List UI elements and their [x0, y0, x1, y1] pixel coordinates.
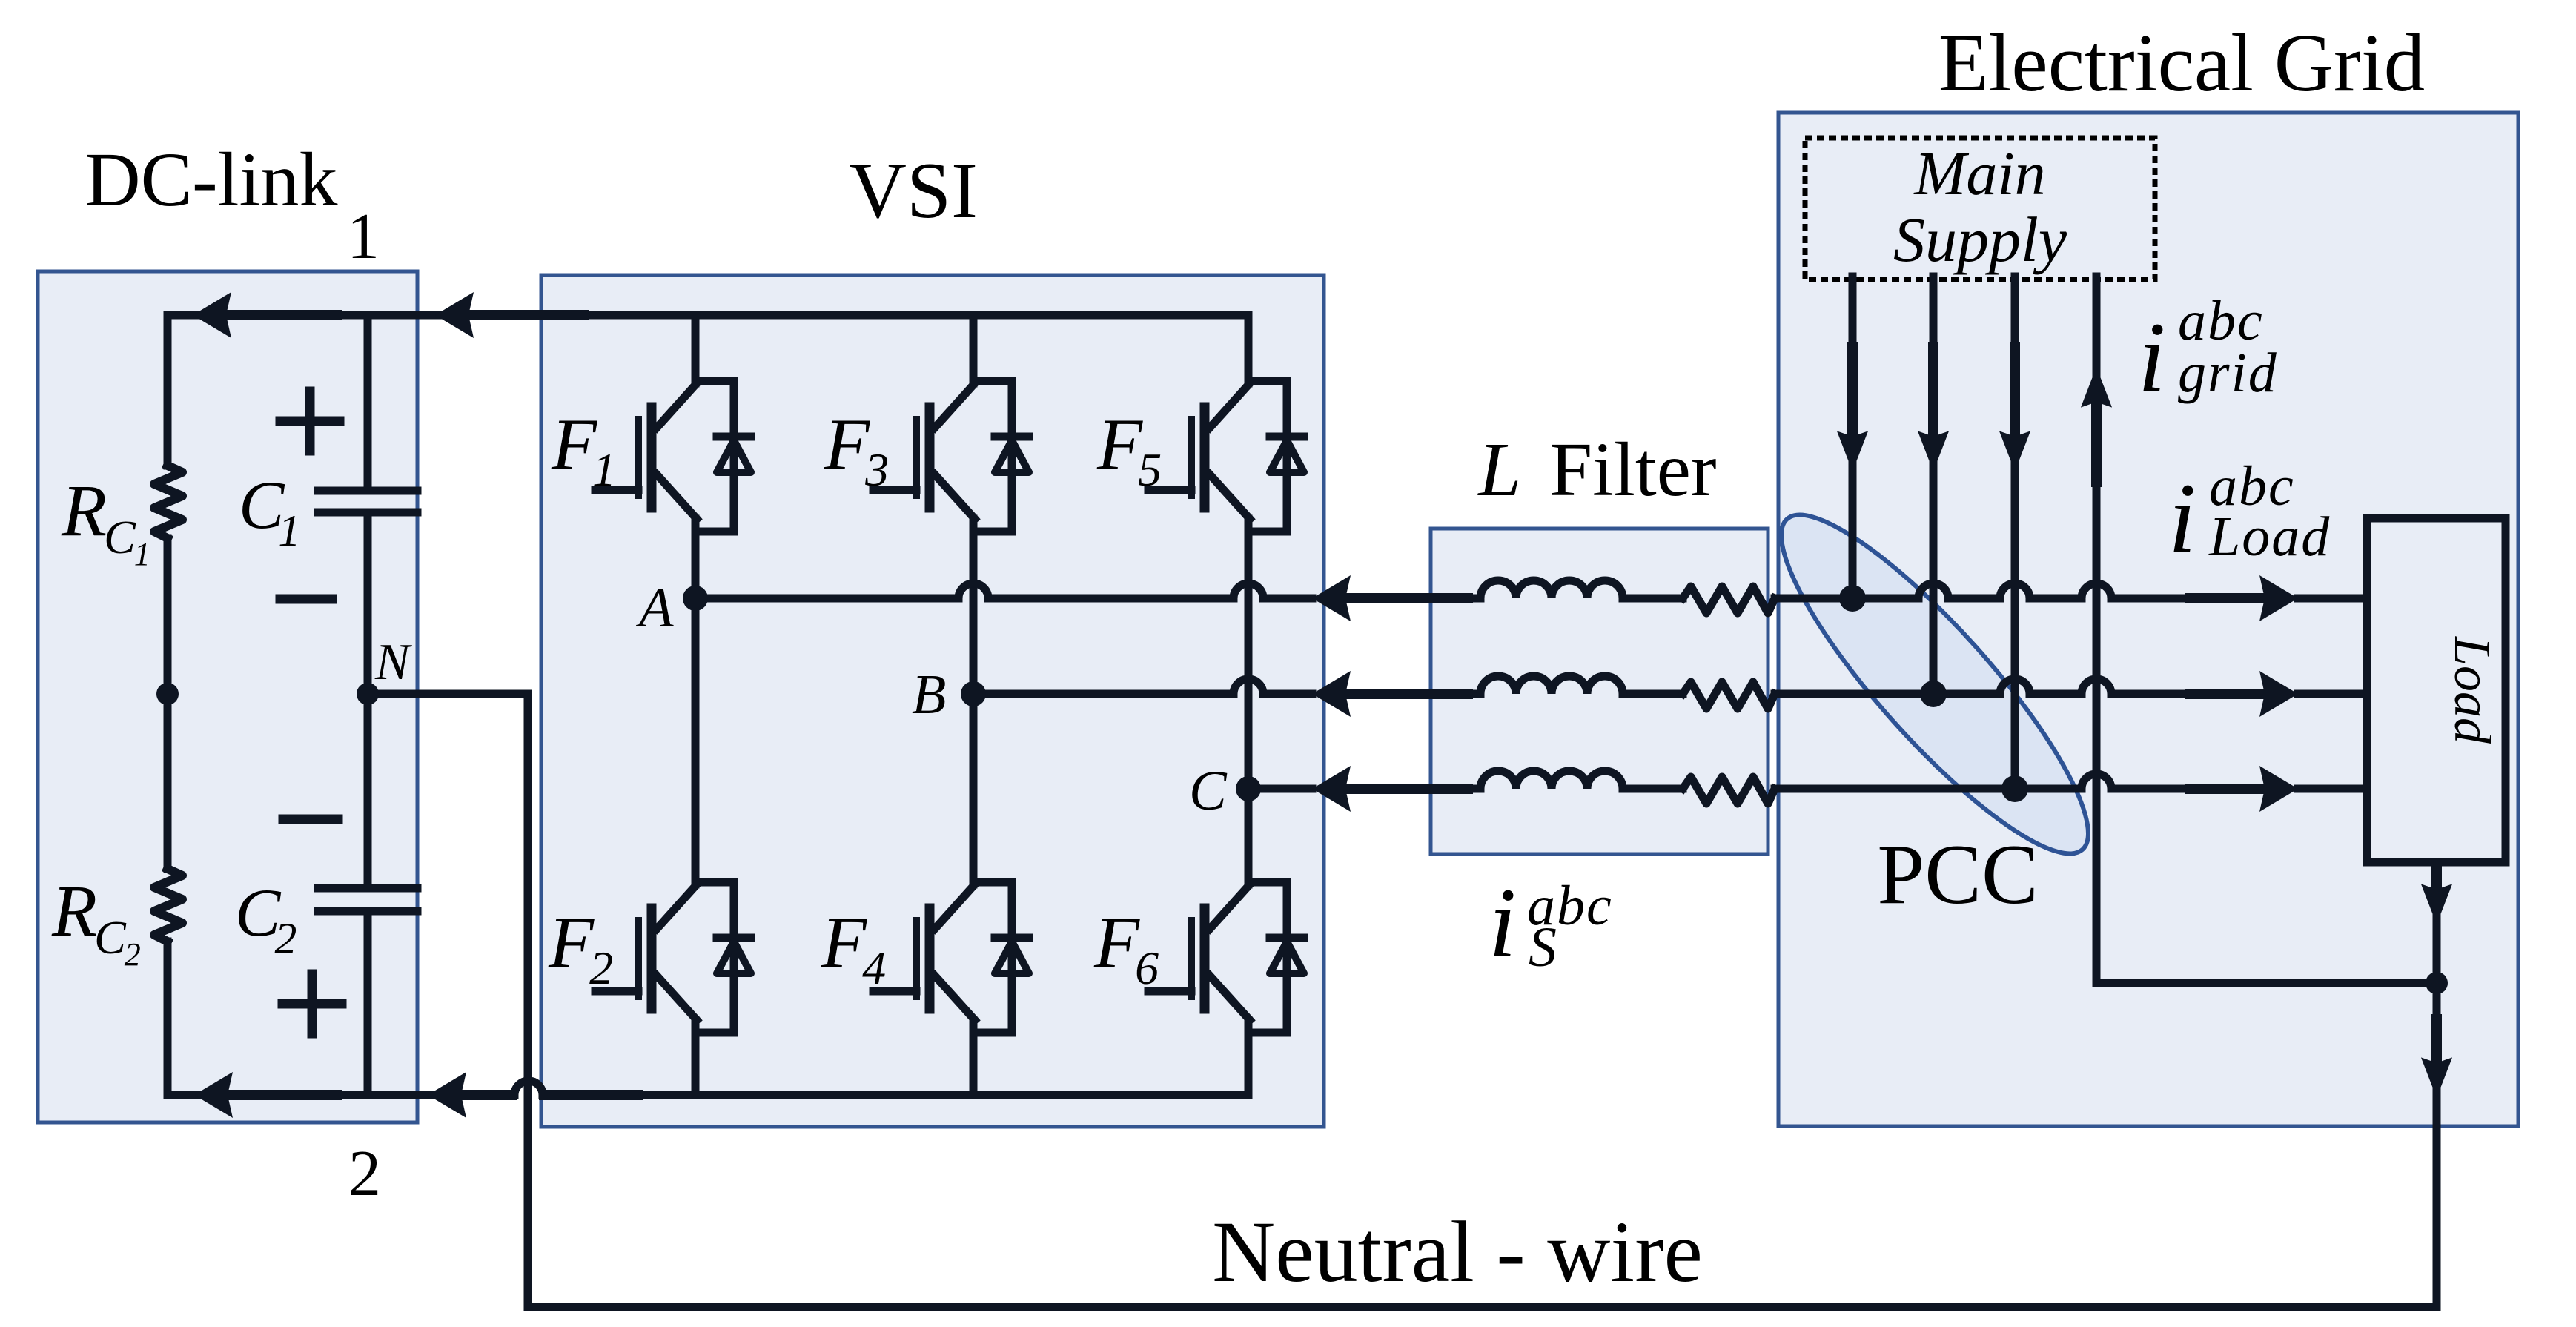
- inductor La: [1480, 580, 1623, 598]
- svg-text:LFilter: LFilter: [1477, 427, 1716, 512]
- PCC dot phase A: [1839, 585, 1866, 612]
- IGBT F2 with antiparallel diode: [595, 882, 751, 1033]
- svg-text:i: i: [1489, 868, 1517, 979]
- phase B wire from node B through filter to Load: [973, 679, 2367, 694]
- svg-text:i: i: [2168, 463, 2196, 574]
- resistor Rc: [1683, 777, 1775, 804]
- wire: neutral from node N down and along bottom to load drop: [368, 694, 2437, 1307]
- minus sign lower: [283, 815, 338, 824]
- node N dot left: [156, 683, 179, 705]
- resistor Rb: [1683, 682, 1775, 709]
- arrow phase C into Load: [2259, 766, 2298, 812]
- arrow grid line 1 down: [1837, 431, 1868, 471]
- svg-text:grid: grid: [2178, 342, 2278, 404]
- capacitor C1 plates: [318, 491, 417, 512]
- minus sign upper: [280, 595, 332, 604]
- Electrical Grid block box: [1778, 113, 2518, 1126]
- arrow grid line 3 down: [1999, 431, 2030, 471]
- svg-text:2: 2: [348, 1138, 381, 1210]
- node B dot: [961, 681, 986, 706]
- svg-text:i: i: [2138, 302, 2166, 413]
- resistor RC1: [154, 466, 182, 538]
- grid vertical wire 2 from Main Supply to phase B: [1930, 277, 1938, 694]
- svg-text:B: B: [912, 663, 946, 726]
- node N dot: [357, 683, 379, 705]
- grid vertical wire 4 (i grid) down and right to load drop: [2096, 277, 2437, 983]
- capacitor C2 plates: [318, 888, 417, 911]
- node C dot: [1236, 776, 1261, 801]
- PCC dot phase C: [2001, 775, 2028, 802]
- plus sign upper: [280, 391, 340, 451]
- VSI leg B vertical wires: [970, 315, 978, 1095]
- arrow phase A into Load: [2259, 575, 2298, 621]
- DC top rail wire: [168, 311, 1248, 320]
- phase A wire from node A through filter to Load: [695, 583, 2367, 598]
- IGBT F4 with antiparallel diode: [873, 882, 1029, 1033]
- arrow on bottom rail from VSI: [428, 1072, 466, 1118]
- PCC dot phase B: [1920, 681, 1947, 707]
- svg-text:Main: Main: [1913, 139, 2045, 208]
- plus sign lower: [282, 974, 342, 1033]
- arrow tails: [217, 310, 337, 320]
- VSI block box: [541, 275, 1324, 1127]
- svg-text:Load: Load: [2208, 506, 2331, 568]
- DC-link capacitor branch vertical wire: [364, 315, 372, 1095]
- svg-text:S: S: [1529, 916, 1557, 979]
- Main Supply dashed box: [1805, 138, 2155, 279]
- VSI leg C vertical wires: [1245, 315, 1253, 1095]
- svg-text:C: C: [1189, 760, 1228, 822]
- grid vertical wire 1 from Main Supply to phase A: [1849, 277, 1857, 598]
- arrow phase A into VSI: [1312, 575, 1351, 621]
- arrow to neutral down: [2421, 1057, 2452, 1098]
- svg-text:VSI: VSI: [849, 147, 978, 235]
- svg-text:Neutral - wire: Neutral - wire: [1212, 1203, 1703, 1300]
- svg-text:N: N: [374, 634, 412, 691]
- arrow i grid up: [2081, 367, 2112, 408]
- node A dot: [683, 586, 708, 611]
- IGBT F5 with antiparallel diode: [1148, 381, 1304, 532]
- junction dot load drop: [2426, 972, 2448, 994]
- svg-text:Supply: Supply: [1893, 204, 2067, 275]
- phase C wire from node C through filter to Load: [1248, 774, 2367, 789]
- svg-text:A: A: [635, 577, 674, 639]
- DC-link left vertical wire (resistor branch): [164, 315, 172, 1095]
- inductor Lc: [1480, 771, 1623, 789]
- arrow phase B into VSI: [1312, 671, 1351, 717]
- inductor Lb: [1480, 676, 1623, 694]
- svg-text:1: 1: [347, 201, 380, 273]
- svg-text:DC-link: DC-link: [85, 137, 338, 222]
- PCC ellipse: [1746, 482, 2124, 887]
- IGBT F3 with antiparallel diode: [873, 381, 1029, 532]
- arrow phase B into Load: [2259, 671, 2298, 717]
- DC bottom rail wire with hop over neutral: [168, 1081, 1248, 1095]
- resistor RC2: [154, 869, 182, 942]
- VSI leg A vertical wires: [692, 315, 700, 1095]
- IGBT F6 with antiparallel diode: [1148, 882, 1304, 1033]
- IGBT F1 with antiparallel diode: [595, 381, 751, 532]
- DC-link block box: [38, 271, 417, 1122]
- Load block: [2367, 518, 2506, 862]
- svg-text:PCC: PCC: [1877, 827, 2038, 921]
- L Filter block box: [1431, 529, 1768, 854]
- grid vertical wire 3 from Main Supply to phase C: [2011, 277, 2019, 789]
- arrow on top rail from VSI: [435, 292, 474, 338]
- arrow on top rail into DC-link: [193, 292, 231, 338]
- arrow grid line 2 down: [1918, 431, 1949, 471]
- resistor Ra: [1683, 586, 1775, 613]
- arrow below Load down: [2421, 884, 2452, 924]
- arrow phase C into VSI: [1312, 766, 1351, 812]
- svg-text:Electrical Grid: Electrical Grid: [1938, 18, 2425, 109]
- arrow on bottom rail into DC-link: [194, 1072, 233, 1118]
- svg-text:Load: Load: [2443, 636, 2500, 744]
